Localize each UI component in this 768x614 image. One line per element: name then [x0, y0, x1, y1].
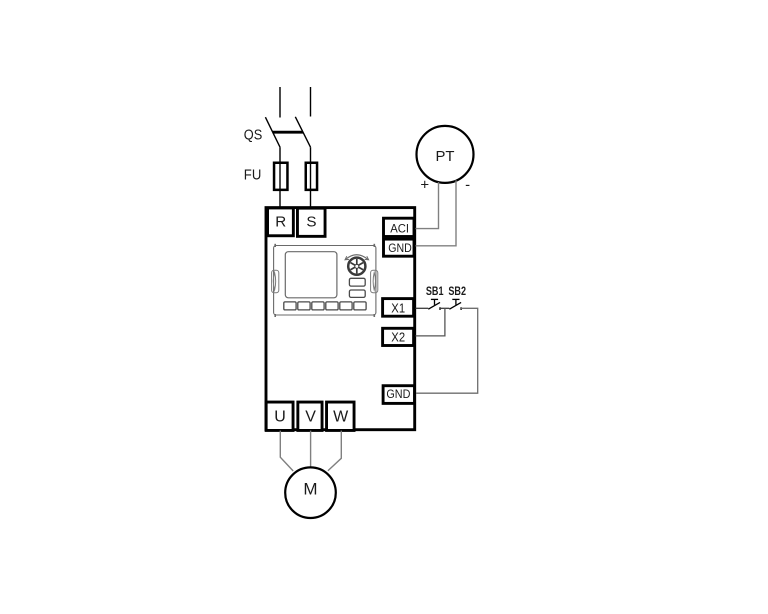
wire X1 to SB1: [416, 307, 429, 309]
knob rotation arc: [346, 255, 369, 260]
terminal GND (upper): [384, 239, 415, 256]
terminal X2: [383, 328, 414, 345]
svg-text:W: W: [333, 409, 349, 426]
terminal U: [266, 402, 293, 430]
terminal S: [297, 208, 325, 236]
terminal GND (lower): [383, 386, 414, 404]
terminal V: [298, 402, 322, 430]
svg-text:S: S: [306, 213, 316, 230]
fuse FU 1: [274, 163, 287, 190]
wire SB2 to GND (lower): [416, 308, 478, 393]
motor M: [285, 467, 336, 518]
keypad left clip: [272, 270, 279, 292]
svg-text:X2: X2: [391, 330, 405, 345]
svg-text:U: U: [274, 409, 286, 426]
wire L2 incoming: [310, 87, 312, 117]
keypad panel: [274, 244, 376, 317]
pushbutton SB1: [428, 299, 440, 310]
switch QS blade 1: [265, 117, 280, 147]
wire PT+ to ACI: [416, 182, 439, 229]
wire PT- to GND: [416, 180, 457, 245]
wire QS to R (through fuse 1): [279, 148, 281, 207]
wire U to motor: [280, 431, 293, 471]
inverter main box: [266, 208, 415, 430]
svg-text:GND: GND: [386, 387, 410, 401]
wire SB1 to SB2: [440, 307, 449, 309]
switch QS link bar: [273, 131, 303, 134]
svg-text:ACI: ACI: [390, 221, 409, 235]
svg-text:M: M: [303, 479, 317, 498]
svg-text:GND: GND: [388, 241, 412, 255]
svg-text:QS: QS: [244, 126, 262, 143]
wire V to motor: [310, 431, 312, 468]
svg-text:FU: FU: [244, 167, 261, 184]
svg-text:SB1: SB1: [426, 286, 444, 298]
terminal W: [327, 402, 355, 430]
svg-text:SB2: SB2: [448, 286, 466, 298]
wire L1 incoming: [279, 87, 281, 118]
keypad screen: [285, 252, 337, 298]
fuse FU 2: [306, 163, 317, 190]
keypad bottom button row: [284, 302, 366, 310]
terminal X1: [383, 299, 414, 317]
keypad right clip: [371, 270, 378, 292]
terminal ACI: [384, 218, 415, 236]
wire junction SB1/SB2 down to X2: [416, 308, 445, 336]
keypad side buttons: [349, 278, 365, 286]
svg-text:V: V: [305, 409, 316, 426]
svg-text:-: -: [465, 177, 470, 194]
wire W to motor: [328, 431, 341, 471]
pushbutton SB2: [449, 299, 461, 310]
svg-text:R: R: [275, 213, 286, 230]
svg-text:+: +: [420, 176, 429, 193]
potentiometer PT: [417, 126, 474, 183]
switch QS blade 2: [295, 117, 310, 147]
svg-text:X1: X1: [391, 301, 405, 316]
terminal R: [268, 208, 294, 236]
wire QS to S (through fuse 2): [310, 147, 312, 207]
keypad rotary knob: [345, 255, 369, 275]
svg-text:PT: PT: [436, 149, 455, 165]
